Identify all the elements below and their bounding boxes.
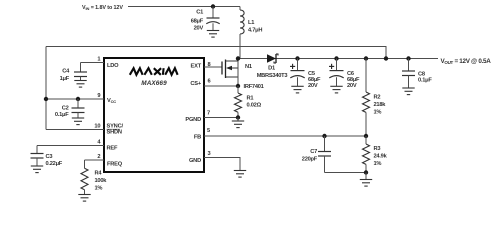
svg-text:3: 3 xyxy=(208,151,211,157)
capacitor C8 xyxy=(402,59,415,89)
node junction C2/VCC xyxy=(76,97,80,101)
svg-text:2: 2 xyxy=(97,154,100,160)
svg-text:8: 8 xyxy=(208,62,211,68)
svg-text:218k: 218k xyxy=(374,102,387,108)
label C4 value xyxy=(60,69,70,83)
ground C5 xyxy=(291,86,303,93)
capacitor C2 xyxy=(72,99,85,118)
pin 6 CS+ xyxy=(204,85,238,87)
svg-text:MAX669: MAX669 xyxy=(141,80,167,87)
svg-text:0.22μF: 0.22μF xyxy=(46,161,63,167)
capacitor C3 xyxy=(31,146,44,167)
svg-text:0.02Ω: 0.02Ω xyxy=(247,103,262,109)
svg-text:100k: 100k xyxy=(95,178,108,184)
svg-text:1μF: 1μF xyxy=(60,76,70,82)
node junction R2/R3/FB xyxy=(364,134,368,138)
pin 2 FREQ xyxy=(85,159,105,161)
svg-text:C7: C7 xyxy=(310,149,317,155)
svg-text:7: 7 xyxy=(207,111,210,117)
svg-text:PGND: PGND xyxy=(185,117,201,123)
label R3 value xyxy=(374,146,388,167)
svg-text:1%: 1% xyxy=(95,186,103,192)
svg-text:MBRS340T3: MBRS340T3 xyxy=(257,73,288,79)
ground C6 xyxy=(330,86,342,93)
ground R3 xyxy=(360,173,372,187)
node junction R3/C7/ground xyxy=(364,170,368,174)
wire VIN top rail xyxy=(128,6,240,8)
svg-text:EXT: EXT xyxy=(191,64,202,70)
svg-text:VIN = 1.8V to 12V: VIN = 1.8V to 12V xyxy=(82,5,123,11)
node junction R1/PGND xyxy=(236,115,240,119)
svg-text:20V: 20V xyxy=(308,83,318,89)
capacitor C1 xyxy=(206,18,219,31)
pin 5 FB xyxy=(204,135,366,137)
svg-text:5: 5 xyxy=(207,128,210,134)
ground GND pin xyxy=(234,171,246,178)
label C8 value xyxy=(418,72,432,84)
ground C4 xyxy=(74,81,86,88)
pin 1 LDO xyxy=(81,62,105,64)
node junction C8/rail xyxy=(406,56,410,60)
ground C8 xyxy=(402,88,414,95)
svg-text:20V: 20V xyxy=(194,26,204,32)
node junction drain/rail xyxy=(236,56,240,60)
pin 9 VCC xyxy=(46,98,104,100)
wire VCC bootstrap from left bus to VOUT rail xyxy=(46,47,386,59)
wire output rail xyxy=(238,58,438,60)
svg-text:L1: L1 xyxy=(248,20,254,26)
svg-text:C1: C1 xyxy=(196,10,203,16)
label R4 value xyxy=(95,171,108,192)
label C6 value xyxy=(347,71,360,89)
svg-text:1%: 1% xyxy=(374,161,382,167)
svg-text:REF: REF xyxy=(107,146,119,152)
svg-text:R3: R3 xyxy=(374,146,381,152)
svg-text:N1: N1 xyxy=(245,64,252,70)
node junction bootstrap/rail xyxy=(384,56,388,60)
svg-text:20V: 20V xyxy=(347,83,357,89)
capacitor C4 xyxy=(74,63,87,81)
svg-text:VCC: VCC xyxy=(107,98,116,104)
ground C1 xyxy=(207,31,219,38)
svg-text:24.9k: 24.9k xyxy=(374,154,388,160)
svg-text:6: 6 xyxy=(208,79,211,85)
ground C2 xyxy=(72,118,84,125)
node junction bus/VCC xyxy=(44,97,48,101)
svg-text:SHDN: SHDN xyxy=(107,130,122,136)
label C1 value xyxy=(191,10,204,32)
svg-text:0.1μF: 0.1μF xyxy=(55,112,69,118)
logo MAXIM xyxy=(130,68,178,75)
resistor R1 xyxy=(235,86,242,118)
svg-text:C2: C2 xyxy=(62,106,69,112)
label R2 value xyxy=(374,95,387,116)
svg-text:LDO: LDO xyxy=(107,63,119,69)
pin 4 REF xyxy=(37,145,104,147)
pin 3 GND xyxy=(204,158,240,171)
svg-text:220pF: 220pF xyxy=(302,157,318,163)
IC U1 MAX669 xyxy=(104,58,204,172)
node junction C1/VIN xyxy=(211,4,215,8)
capacitor C6 xyxy=(329,59,344,87)
svg-text:R4: R4 xyxy=(95,171,103,177)
svg-text:GND: GND xyxy=(189,158,201,164)
svg-text:C4: C4 xyxy=(62,69,70,75)
label C5 value xyxy=(308,71,321,89)
wire C7 to R3 bottom xyxy=(325,172,367,174)
inductor L1 xyxy=(240,7,244,35)
transistor N1 IRF7401 xyxy=(222,59,238,87)
label C2 value xyxy=(55,106,69,119)
node junction C5/rail xyxy=(295,56,299,60)
wire C1 stub xyxy=(212,7,214,18)
svg-text:R2: R2 xyxy=(374,95,381,101)
label L1 value xyxy=(248,20,262,34)
label R1 value xyxy=(247,96,262,109)
node VIN label xyxy=(82,5,123,11)
pin 7 PGND xyxy=(204,117,238,119)
resistor R2 xyxy=(363,59,370,137)
svg-text:9: 9 xyxy=(97,93,100,99)
svg-text:1%: 1% xyxy=(374,110,382,116)
svg-text:D1: D1 xyxy=(268,66,275,72)
pin 8 EXT xyxy=(204,66,222,68)
svg-text:C3: C3 xyxy=(46,154,53,160)
node junction C7/FB xyxy=(322,134,326,138)
resistor R4 xyxy=(81,160,88,195)
wire left vertical bus xyxy=(45,47,47,130)
svg-text:R1: R1 xyxy=(247,96,254,102)
svg-text:FB: FB xyxy=(194,135,201,141)
resistor R3 xyxy=(363,136,370,173)
svg-text:68μF: 68μF xyxy=(191,19,204,25)
svg-text:1: 1 xyxy=(97,57,100,63)
svg-text:4.7μH: 4.7μH xyxy=(248,28,262,34)
ground C3 xyxy=(31,166,43,173)
node junction source/CS+ xyxy=(236,84,240,88)
node junction C6/rail xyxy=(334,56,338,60)
label C7 value xyxy=(302,149,318,163)
capacitor C7 xyxy=(318,136,331,173)
wire L1 to drain node xyxy=(239,34,241,59)
svg-text:IRF7401: IRF7401 xyxy=(244,84,264,90)
capacitor C5 xyxy=(290,59,305,87)
svg-text:0.1μF: 0.1μF xyxy=(418,78,432,84)
diode D1 MBRS340T3 xyxy=(267,54,278,63)
node junction R2/rail xyxy=(364,56,368,60)
svg-text:FREQ: FREQ xyxy=(107,162,123,168)
ground PGND xyxy=(232,118,244,128)
label C3 value xyxy=(46,154,63,167)
ground R4 xyxy=(78,195,90,202)
svg-text:10: 10 xyxy=(94,124,100,130)
svg-text:CS+: CS+ xyxy=(190,81,202,87)
pin 10 SYNC/SHDN xyxy=(46,129,104,131)
